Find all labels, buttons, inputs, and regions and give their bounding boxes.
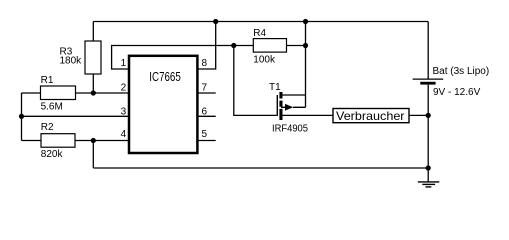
transistor T1 channel bar bottom segment	[279, 109, 282, 120]
wire pin7 stub	[199, 92, 216, 94]
wire ground bottom rail	[93, 167, 428, 169]
wire V+ top rail	[93, 21, 428, 23]
transistor Q1 T1 gate line	[276, 95, 278, 116]
wire pin2 net left segment	[22, 92, 41, 94]
wire pin4 to ground rail	[92, 141, 94, 169]
svg-text:180k: 180k	[60, 55, 83, 66]
wire pin1 to R4 net	[112, 46, 254, 70]
svg-text:7: 7	[202, 82, 208, 93]
junction R4 left	[231, 43, 236, 48]
wire R3 top lead	[92, 22, 94, 42]
ground symbol	[418, 182, 440, 187]
svg-text:100k: 100k	[253, 54, 276, 65]
junction drain riser on rail	[303, 19, 308, 24]
wire load to battery	[409, 114, 428, 116]
wire drain lead and riser to rail	[281, 22, 306, 108]
transistor T1 channel bar middle segment	[279, 101, 282, 107]
transistor T1 channel bar top segment	[279, 92, 282, 99]
resistor R2	[41, 134, 75, 148]
svg-text:3: 3	[121, 107, 127, 118]
resistor R4	[253, 39, 286, 53]
wire pin8 to V+ rail	[199, 22, 216, 70]
wire R2 to pin4	[75, 140, 128, 142]
junction pin8 drop on rail	[213, 19, 218, 24]
junction left rail/pin3	[19, 114, 24, 119]
junction R4 right	[303, 43, 308, 48]
battery BAT1 negative plate	[420, 82, 435, 85]
svg-text:4: 4	[121, 129, 127, 140]
junction R3/R1/pin2	[91, 90, 96, 95]
svg-text:Bat (3s Lipo): Bat (3s Lipo)	[433, 66, 490, 77]
svg-text:5: 5	[202, 129, 208, 140]
wire R4 right lead	[287, 45, 306, 47]
wire gate drop from R4 left	[234, 46, 277, 116]
wire pin4 net left segment	[22, 140, 42, 142]
wire R3 bottom lead	[92, 74, 94, 93]
load box Verbraucher	[333, 109, 409, 123]
wire battery bottom lead	[427, 85, 429, 182]
wire pin3 net	[22, 115, 129, 117]
svg-text:R4: R4	[253, 28, 266, 39]
junction R2/pin4/ground drop	[91, 138, 96, 143]
wire left rail	[21, 93, 23, 141]
wire body arrow lead	[281, 106, 306, 108]
svg-text:2: 2	[121, 82, 127, 93]
op-amp U1 IC7665 body	[129, 56, 197, 153]
svg-text:IRF4905: IRF4905	[272, 124, 308, 135]
svg-text:IC7665: IC7665	[149, 69, 181, 84]
svg-text:R2: R2	[41, 122, 54, 133]
svg-text:9V - 12.6V: 9V - 12.6V	[433, 87, 481, 98]
transistor T1 body arrow	[285, 104, 293, 111]
junction load/battery	[426, 113, 431, 118]
wire R1 to pin2	[76, 92, 129, 94]
wire source to load	[281, 114, 333, 116]
battery BAT1 positive plate	[413, 78, 444, 80]
svg-text:8: 8	[202, 58, 208, 69]
wire pin5 stub	[199, 140, 216, 142]
svg-text:5.6M: 5.6M	[41, 101, 63, 112]
resistor R3	[85, 41, 101, 74]
wire pin6 stub	[199, 115, 216, 117]
resistor R1	[41, 86, 76, 100]
svg-text:R1: R1	[41, 75, 54, 86]
svg-text:Verbraucher: Verbraucher	[336, 109, 405, 123]
wire battery top lead	[427, 22, 429, 79]
svg-text:820k: 820k	[41, 149, 64, 160]
svg-text:T1: T1	[269, 82, 281, 93]
junction bottom rail/battery	[426, 165, 431, 170]
svg-text:1: 1	[121, 58, 127, 69]
